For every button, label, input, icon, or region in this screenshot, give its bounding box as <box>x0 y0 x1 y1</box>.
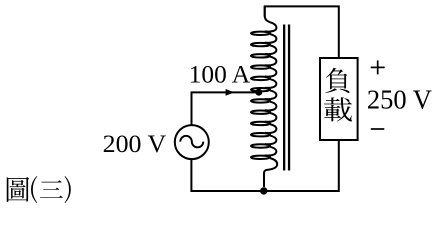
svg-text:100 A: 100 A <box>189 62 251 89</box>
svg-text:250 V: 250 V <box>367 85 432 115</box>
svg-text:200 V: 200 V <box>103 129 167 158</box>
